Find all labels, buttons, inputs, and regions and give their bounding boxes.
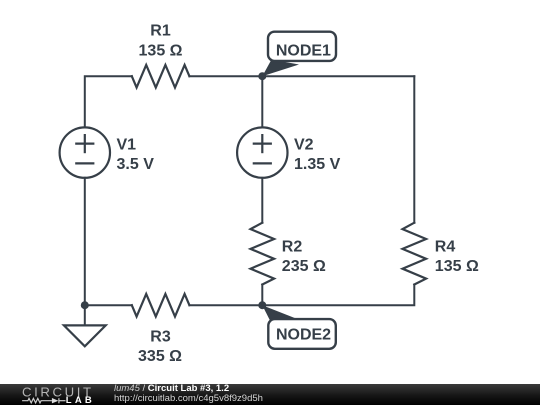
label V2 name	[294, 136, 314, 153]
wire top-left: V1 top to R1 left	[85, 76, 132, 127]
svg-text:R3: R3	[150, 328, 171, 345]
footer title text	[114, 383, 229, 394]
ground stub	[84, 305, 86, 325]
label R2 value 235 ohm	[282, 258, 326, 275]
svg-text:NODE2: NODE2	[276, 326, 331, 343]
svg-text:LAB: LAB	[66, 395, 93, 405]
label V1 name	[117, 136, 137, 153]
wire right-bottom: R4 bottom to bottom-right corner to NODE2	[262, 285, 414, 306]
wire left: V1 bottom to ground node	[84, 178, 86, 305]
label R4 name	[435, 239, 456, 256]
label R4 value 135 ohm	[435, 258, 479, 275]
wire bottom: NODE2 to R3 right	[189, 304, 262, 306]
voltage source V2	[237, 127, 287, 177]
svg-text:V1: V1	[117, 136, 137, 153]
wire bottom-left: R3 left to ground node	[85, 304, 132, 306]
logo CIRCUIT text	[22, 384, 93, 399]
label R3 value 335 ohm	[138, 348, 182, 365]
NODE2 callout pointer	[262, 305, 296, 321]
svg-text:http://circuitlab.com/c4g5v8f9: http://circuitlab.com/c4g5v8f9z9d5h	[114, 393, 263, 404]
svg-text:V2: V2	[294, 136, 314, 153]
svg-text:135 Ω: 135 Ω	[435, 258, 479, 275]
footer url text	[114, 393, 263, 404]
logo LAB text	[66, 395, 93, 405]
NODE1 callout box	[268, 32, 336, 61]
ground symbol	[64, 325, 106, 346]
wire middle: R2 bottom to NODE2	[261, 285, 263, 306]
voltage source V1	[60, 127, 110, 177]
svg-text:335 Ω: 335 Ω	[138, 348, 182, 365]
wire middle: NODE1 to V2 top	[261, 76, 263, 127]
svg-text:3.5 V: 3.5 V	[117, 156, 155, 173]
logo resistor zigzag and diode	[22, 398, 65, 403]
resistor R4	[403, 223, 427, 285]
NODE1 label text	[276, 42, 331, 59]
svg-text:235 Ω: 235 Ω	[282, 258, 326, 275]
NODE2 callout box	[268, 319, 336, 349]
NODE1 callout pointer	[262, 60, 299, 77]
NODE2 label text	[276, 326, 331, 343]
label R1 value 135 ohm	[139, 42, 183, 59]
label R1 name	[150, 23, 171, 40]
wire right: top-right corner to R4 top	[413, 76, 415, 223]
node junction dot NODE1	[258, 72, 266, 80]
node junction dot ground	[81, 301, 89, 309]
label R2 name	[282, 239, 303, 256]
label R3 name	[150, 328, 171, 345]
wire middle: V2 bottom to R2 top	[261, 178, 263, 223]
resistor R3	[132, 294, 190, 317]
label V1 value 3.5 V	[117, 156, 155, 173]
svg-text:1.35 V: 1.35 V	[294, 156, 341, 173]
svg-text:135 Ω: 135 Ω	[139, 42, 183, 59]
svg-text:R4: R4	[435, 239, 456, 256]
svg-text:R1: R1	[150, 23, 171, 40]
resistor R1	[132, 65, 190, 88]
svg-text:R2: R2	[282, 239, 303, 256]
svg-text:NODE1: NODE1	[276, 42, 331, 59]
wire top: R1 right to top-right corner	[189, 75, 414, 77]
label V2 value 1.35 V	[294, 156, 341, 173]
resistor R2	[251, 223, 275, 285]
node junction dot NODE2	[258, 301, 266, 309]
